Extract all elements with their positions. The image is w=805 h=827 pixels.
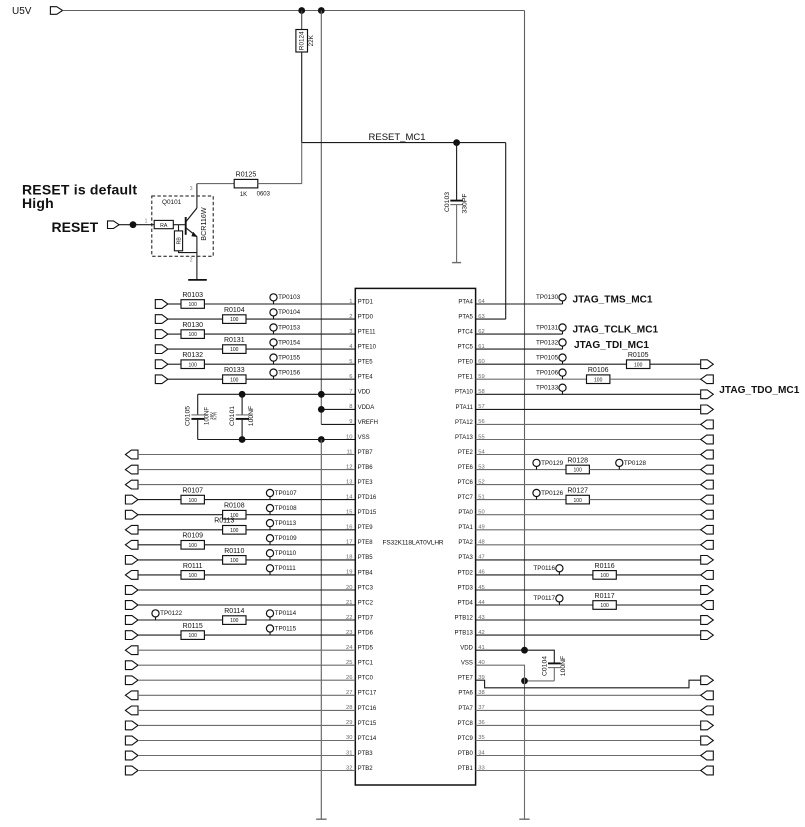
svg-text:TP0110: TP0110 [275,550,297,557]
svg-text:TP0103: TP0103 [278,294,301,301]
svg-text:100NF: 100NF [248,406,255,426]
wire pin 27 to IC [138,694,355,696]
port arrow row pin 18 [125,556,138,565]
wire pin 58 to arrow [476,393,701,395]
wire pin 23 to IC [204,634,355,636]
svg-text:PTD16: PTD16 [358,495,377,501]
port arrow pin 44 [701,601,714,610]
svg-text:C0103: C0103 [444,192,451,212]
svg-text:PTA13: PTA13 [455,435,474,441]
wire pin 16 left segment [138,529,223,531]
wire pin 35 to arrow [476,740,701,742]
svg-text:PTC14: PTC14 [358,736,377,742]
svg-text:TP0116: TP0116 [533,565,555,572]
resistor R0132 100 [181,352,204,368]
node junction RESET_MC1/C0103 [453,139,460,146]
svg-text:PTC0: PTC0 [358,676,374,682]
port arrow row pin 27 [125,691,138,700]
svg-text:0603: 0603 [257,191,271,197]
wire pin 45 to arrow [476,589,701,591]
svg-text:10: 10 [346,434,352,440]
svg-text:PTB1: PTB1 [458,766,474,772]
wire VDDA row from rail [321,408,355,410]
testpoint TP0111 [266,565,296,575]
svg-text:PTE2: PTE2 [458,450,474,456]
wire pin 22 to IC [246,619,355,621]
svg-text:VSS: VSS [358,435,370,441]
resistor R0106 100 [587,367,610,383]
svg-text:JTAG_TMS_MC1: JTAG_TMS_MC1 [573,295,653,306]
svg-text:PTB0: PTB0 [458,751,474,757]
port arrow pin 33 [701,766,714,775]
testpoint TP0113 [266,520,296,530]
svg-text:C0105: C0105 [184,406,191,426]
IC U0101 FS32K118 body [355,288,475,785]
port arrow row pin 32 [125,766,138,775]
svg-text:TP0109: TP0109 [275,535,298,542]
svg-text:R0127: R0127 [567,488,588,495]
wire emitter down [196,237,198,280]
svg-text:PTD5: PTD5 [358,646,374,652]
text RESET is default High [22,182,137,211]
wire pin 29 to IC [138,724,355,726]
svg-text:PTE10: PTE10 [358,345,377,351]
svg-text:100: 100 [230,558,239,564]
wire pin 41 VDD to C0104 [476,650,555,663]
svg-text:100: 100 [189,498,198,504]
wire pin 31 to IC [138,755,355,757]
resistor R0104 100 [223,307,246,324]
svg-text:PTD0: PTD0 [358,314,374,320]
svg-text:1: 1 [145,218,148,224]
wire RESET_MC1 down to pin 63 [505,143,507,320]
svg-text:R0109: R0109 [182,533,203,540]
wire pin 15 to IC [246,514,355,516]
svg-text:VDD: VDD [358,390,371,396]
svg-text:7: 7 [349,389,352,395]
port arrow row pin 26 [125,676,138,685]
svg-text:PTE8: PTE8 [358,540,374,546]
svg-text:TP0133: TP0133 [536,385,559,392]
resistor R0130 100 [181,322,204,338]
svg-text:R0131: R0131 [224,337,245,344]
wire pin 49 to arrow [476,529,701,531]
port arrow pin 39 [701,676,714,685]
IC pin numbers and names [346,299,485,772]
wire pin 16 to IC [246,529,355,531]
port arrow pin 47 [701,556,714,565]
port arrow row pin 28 [125,706,138,715]
wire collector to R0125 [197,183,234,185]
svg-text:PTC9: PTC9 [458,736,474,742]
port arrow pin 53 [701,465,714,474]
testpoint TP0104 [270,309,301,319]
testpoint TP0115 [266,625,296,635]
svg-text:TP0154: TP0154 [278,339,301,346]
wire pin 6 to IC [246,378,355,380]
testpoint TP0126 [533,489,564,499]
port arrow pin 43 [701,616,714,625]
svg-text:TP0128: TP0128 [624,460,647,467]
svg-text:RESET: RESET [52,219,99,235]
port pointer RESET [108,221,120,229]
node junction VDD pin41/rail [521,647,528,654]
node junction U5V/left rail [318,7,325,14]
svg-text:TP0129: TP0129 [541,460,564,467]
svg-text:R0103: R0103 [182,292,203,299]
testpoint TP0103 [270,294,301,304]
port arrow pin 57 [701,405,714,414]
svg-text:PTE6: PTE6 [458,465,474,471]
wire pin 3 left segment [168,333,181,335]
wire VSS row to caps [198,439,356,441]
port arrow pin 34 [701,751,714,760]
svg-text:PTD2: PTD2 [458,570,474,576]
svg-text:TP0132: TP0132 [536,339,559,346]
svg-text:PTC4: PTC4 [458,330,474,336]
power pointer U5V [50,7,62,15]
svg-text:PTD1: PTD1 [358,299,374,305]
svg-text:100: 100 [230,347,239,353]
port arrow row pin 20 [125,586,138,595]
resistor R0127 100 [566,488,589,504]
svg-text:PTA3: PTA3 [458,555,473,561]
port arrow row pin 19 [125,571,138,580]
svg-text:X7R: X7R [213,412,218,420]
svg-text:PTD4: PTD4 [458,600,474,606]
svg-text:PTE0: PTE0 [458,360,474,366]
svg-text:RA: RA [160,223,168,229]
wire pin 6 left segment [168,378,223,380]
svg-text:100: 100 [634,362,643,368]
svg-text:TP0156: TP0156 [278,369,301,376]
svg-text:TP0106: TP0106 [536,369,559,376]
wire pin 1 to IC [204,303,355,305]
wire R0116 to arrow [616,574,700,576]
port arrow pin 45 [701,586,714,595]
svg-text:PTB13: PTB13 [455,631,474,637]
wire pin 20 to IC [138,589,355,591]
wire pin 17 left segment [138,544,181,546]
transistor Q0101 BCR116W dashed outline [152,196,213,256]
stub end right rail [519,818,529,820]
port arrow row pin 24 [125,646,138,655]
svg-text:8: 8 [349,404,352,410]
port arrow row pin 1 [155,300,168,309]
resistor R0113 100 [214,518,246,534]
svg-text:R0104: R0104 [224,307,245,314]
wire pin 39 PTE7 jog [476,680,701,688]
testpoint TP0133 [536,384,566,394]
wire RESET to RA [119,224,154,226]
port arrow pin 49 [701,525,714,534]
wire pin 12 to IC [138,469,355,471]
svg-text:PTA12: PTA12 [455,420,474,426]
port arrow row pin 23 [125,631,138,640]
resistor R0128 100 [566,457,589,473]
svg-text:PTA0: PTA0 [458,510,473,516]
port arrow pin 52 [701,480,714,489]
svg-text:PTD15: PTD15 [358,510,377,516]
wire RA to base [173,224,185,226]
svg-text:PTE9: PTE9 [358,525,374,531]
port arrow row pin 17 [125,540,138,549]
testpoint TP0109 [266,535,297,545]
ground Q0101 emitter [188,279,207,281]
node junction VSS/left rail [318,436,325,443]
wire pin 48 to arrow [476,544,701,546]
port arrow pin 55 [701,435,714,444]
svg-text:PTA2: PTA2 [458,540,473,546]
wire pin 2 left segment [168,318,223,320]
svg-text:TP0115: TP0115 [275,625,297,632]
wire pin 2 to IC [246,318,355,320]
port arrow row pin 29 [125,721,138,730]
svg-text:PTB3: PTB3 [358,751,374,757]
wire pin 4 to IC [246,348,355,350]
svg-text:TP0107: TP0107 [275,490,298,497]
svg-text:PTE5: PTE5 [358,360,374,366]
svg-text:Q0101: Q0101 [162,199,182,206]
wire pin 59 to R0106 [476,378,587,380]
svg-text:100NF: 100NF [560,656,567,676]
svg-text:TP0126: TP0126 [541,490,564,497]
wire pin 3 to IC [204,333,355,335]
svg-text:PTC3: PTC3 [358,585,374,591]
svg-text:TP0131: TP0131 [536,324,559,331]
svg-text:100: 100 [600,573,609,579]
wire pin 47 to arrow [476,559,701,561]
wire pin 63 stub [476,318,506,320]
svg-text:BCR116W: BCR116W [199,207,208,241]
port arrow row pin 14 [125,495,138,504]
wire pin 38 to arrow [476,694,701,696]
svg-text:TP0105: TP0105 [536,354,559,361]
svg-text:FS32K118LAT0VLHR: FS32K118LAT0VLHR [383,539,444,546]
svg-text:TP0117: TP0117 [533,595,555,602]
wire pin 1 left segment [168,303,181,305]
wire pin 26 to IC [138,679,355,681]
resistor RB (internal) [174,225,182,251]
svg-text:PTC6: PTC6 [458,480,474,486]
port arrow row pin 30 [125,736,138,745]
svg-text:100: 100 [574,498,583,504]
wire pin 28 to IC [138,709,355,711]
svg-text:PTB7: PTB7 [358,450,374,456]
wire pin 37 to arrow [476,709,701,711]
resistor R0115 100 [181,623,204,639]
wire pin 11 to IC [138,454,355,456]
wire VSS left rail down [320,440,322,820]
svg-text:TP0104: TP0104 [278,309,301,316]
port arrow row pin 2 [155,315,168,324]
wire pin 30 to IC [138,740,355,742]
wire pin 34 to arrow [476,755,701,757]
wire U5V horizontal rail [63,10,525,12]
node junction U5V/R0124 [298,7,305,14]
port arrow pin 56 [701,420,714,429]
wire R0128 to arrow [589,469,700,471]
svg-text:C0101: C0101 [229,406,236,426]
svg-text:PTD7: PTD7 [358,615,374,621]
port arrow pin 58 [701,390,714,399]
svg-text:PTB5: PTB5 [358,555,374,561]
svg-text:PTA10: PTA10 [455,390,474,396]
port arrow pin 37 [701,706,714,715]
svg-text:R0125: R0125 [236,172,257,179]
node junction VDD/C0101 [239,391,246,398]
svg-text:PTC2: PTC2 [358,600,374,606]
svg-text:R0124: R0124 [299,31,306,50]
svg-text:PTB2: PTB2 [358,766,374,772]
svg-text:R0130: R0130 [182,322,203,329]
svg-text:2: 2 [190,258,193,264]
wire pin 36 to arrow [476,724,701,726]
svg-text:VREFH: VREFH [358,420,378,426]
testpoint TP0117 [533,595,563,605]
svg-text:R0107: R0107 [182,488,203,495]
svg-text:100: 100 [230,618,239,624]
capacitor C0101 100NF [229,394,255,439]
wire pin 17 to IC [204,544,355,546]
svg-text:PTB6: PTB6 [358,465,374,471]
svg-text:100: 100 [594,377,603,383]
node junction RESET wire [130,221,137,228]
wire pin 13 to IC [138,484,355,486]
svg-text:3: 3 [190,186,193,192]
resistor R0117 100 [593,593,616,609]
wire pin 57 to arrow [476,408,701,410]
wire pin 55 to arrow [476,439,701,441]
wire R0125 to RESET_MC1 net [258,143,302,184]
capacitor C0105 100NF [184,394,217,439]
svg-text:PTE3: PTE3 [358,480,374,486]
svg-text:PTB4: PTB4 [358,570,374,576]
wire RESET_MC1 horizontal [302,142,506,144]
svg-text:RB: RB [177,237,183,245]
wire pin 5 left segment [168,363,181,365]
svg-text:100: 100 [230,317,239,323]
svg-text:100: 100 [189,573,198,579]
svg-text:PTE7: PTE7 [458,676,474,682]
svg-text:PTD3: PTD3 [458,585,474,591]
port arrow pin 59 [701,375,714,384]
testpoint TP0129 [533,459,564,469]
wire pin 19 left segment [138,574,181,576]
port arrow pin 36 [701,721,714,730]
svg-text:R0114: R0114 [224,608,244,615]
svg-text:TP0130: TP0130 [536,294,559,301]
svg-text:PTA4: PTA4 [458,299,473,305]
port arrow row pin 3 [155,330,168,339]
resistor R0116 100 [593,563,616,579]
svg-text:R0115: R0115 [183,623,203,630]
svg-text:TP0153: TP0153 [278,324,301,331]
wire pin 14 to IC [204,499,355,501]
svg-text:100: 100 [230,528,239,534]
node junction VDDA/left rail [318,406,325,413]
resistor R0131 100 [223,337,246,353]
testpoint TP0132 [536,339,566,349]
port arrow pin 35 [701,736,714,745]
svg-text:JTAG_TDO_MC1: JTAG_TDO_MC1 [719,385,799,396]
wire R0117 to arrow [616,604,700,606]
svg-text:PTC7: PTC7 [458,495,474,501]
svg-text:TP0108: TP0108 [275,505,298,512]
port arrow pin 50 [701,510,714,519]
svg-text:100: 100 [189,633,198,639]
testpoint TP0106 [536,369,566,379]
wire pin 40 VSS to rail [476,665,525,819]
wire pin 56 to arrow [476,423,701,425]
wire pin 21 to IC [138,604,355,606]
svg-text:PTC15: PTC15 [358,721,377,727]
svg-text:R0117: R0117 [595,593,615,600]
wire R0124 bottom lead to RESET_MC1 [301,52,303,143]
port arrow row pin 16 [125,525,138,534]
svg-text:JTAG_TCLK_MC1: JTAG_TCLK_MC1 [573,325,659,336]
wire VDD row from caps [198,393,356,395]
svg-text:PTE11: PTE11 [358,330,377,336]
svg-text:VSS: VSS [461,661,473,667]
capacitor C0103 330PF [444,143,469,263]
testpoint TP0107 [266,489,297,499]
port arrow pin 54 [701,450,714,459]
wire U5V right vertical rail [524,11,526,651]
wire pin 5 to IC [204,363,355,365]
wire pin 64 to TP0130 [476,303,563,305]
testpoint TP0114 [266,610,296,620]
resistor R0133 100 [223,367,246,383]
testpoint TP0108 [266,505,297,515]
svg-text:R0133: R0133 [224,367,245,374]
svg-text:R0108: R0108 [224,503,245,510]
resistor R0108 100 [223,503,246,519]
node junction C0104/VSS rail [521,678,528,685]
wire pin 33 to arrow [476,770,701,772]
port arrow pin 46 [701,571,714,580]
svg-text:TP0122: TP0122 [160,610,183,617]
wire R0105 to arrow [650,363,701,365]
port arrow row pin 15 [125,510,138,519]
wire R0127 to arrow [589,499,700,501]
wire RB bottom to emitter [179,251,197,253]
svg-text:100: 100 [574,468,583,474]
svg-text:U5V: U5V [12,6,32,17]
resistor R0107 100 [181,488,204,504]
wire pin 22 left segment [138,619,223,621]
wire collector up [196,184,198,208]
svg-text:330PF: 330PF [462,193,469,213]
svg-text:100: 100 [189,543,198,549]
testpoint TP0153 [270,324,301,334]
transistor Q0101 symbol [186,207,208,241]
resistor R0125 1K 0603 [234,172,270,199]
svg-text:VDDA: VDDA [358,405,375,411]
node junction VSS/C0101 [239,436,246,443]
svg-text:TP0113: TP0113 [275,520,297,527]
wire pin 53 to R0128 [476,469,566,471]
svg-text:C0104: C0104 [541,656,548,676]
svg-text:PTA7: PTA7 [458,706,473,712]
testpoint TP0130 [536,294,566,304]
testpoint TP0122 [152,610,183,620]
svg-text:VDD: VDD [460,646,473,652]
svg-text:100: 100 [230,377,239,383]
node junction VDD/left rail [318,391,325,398]
stub end left rail [316,818,326,820]
svg-text:PTA5: PTA5 [458,314,473,320]
